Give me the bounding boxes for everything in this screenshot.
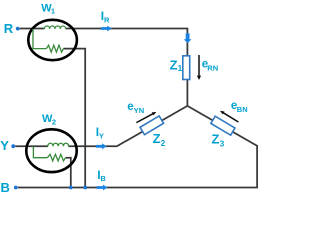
svg-text:Z: Z	[212, 132, 220, 147]
svg-text:e: e	[127, 101, 133, 113]
svg-text:2: 2	[161, 139, 166, 148]
svg-text:YN: YN	[134, 106, 144, 115]
svg-text:R: R	[104, 15, 110, 24]
svg-text:1: 1	[178, 64, 183, 73]
svg-text:R: R	[4, 21, 14, 36]
svg-text:Y: Y	[99, 131, 104, 140]
svg-text:BN: BN	[237, 105, 248, 114]
svg-text:B: B	[100, 174, 106, 183]
svg-text:Z: Z	[153, 131, 161, 146]
svg-text:Z: Z	[170, 57, 178, 72]
svg-text:B: B	[1, 180, 10, 193]
svg-text:3: 3	[220, 139, 225, 148]
svg-text:RN: RN	[207, 64, 218, 73]
svg-text:2: 2	[52, 117, 56, 126]
svg-text:1: 1	[51, 7, 55, 16]
svg-text:Y: Y	[0, 138, 9, 153]
